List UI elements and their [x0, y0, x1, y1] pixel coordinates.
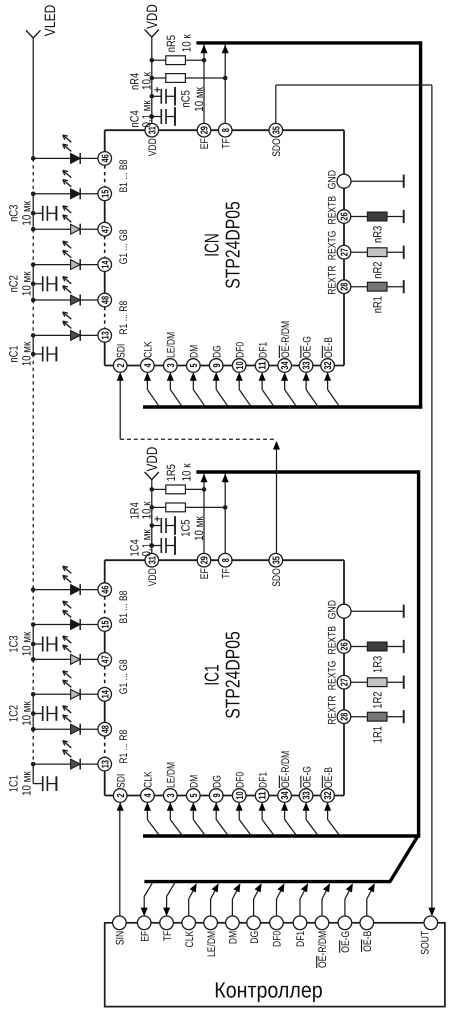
arrow into pin 32 of IC1 — [324, 802, 331, 811]
svg-text:DM: DM — [228, 931, 240, 944]
ground symbol at 1R3 — [403, 640, 405, 653]
LED emission arrows R8 IC1 — [63, 706, 72, 722]
wire controller SIN to IC1 SDI — [119, 810, 121, 916]
svg-text:34: 34 — [280, 361, 291, 370]
wire bus to controller TF — [167, 883, 175, 909]
svg-text:13: 13 — [100, 331, 111, 340]
junction nR5-EF — [202, 58, 207, 63]
pin GND of IC1 — [327, 600, 352, 619]
wire rail to LED R1 ICN — [33, 334, 70, 336]
arrow into pin 34 of ICN — [281, 372, 288, 381]
svg-text:47: 47 — [100, 225, 111, 234]
pin 28 REXTR of ICN — [327, 266, 351, 295]
controller pin EF — [137, 916, 151, 942]
bus vertical right of ICN (thick) — [419, 41, 422, 407]
wire LED to pin B8 ICN — [80, 157, 98, 159]
junction on VDD wire — [150, 76, 155, 81]
arrow controller OVG into bus — [346, 883, 353, 892]
pin 47 LED output of IC1 — [98, 653, 112, 667]
svg-text:14: 14 — [100, 690, 111, 699]
pin 10 DF0 of ICN — [232, 342, 246, 373]
ground symbol at GND of IC1 — [351, 605, 404, 618]
pin GND of ICN — [327, 170, 352, 189]
arrow into pin 11 of ICN — [259, 372, 266, 381]
junction on VDD wire — [150, 505, 155, 510]
resistor 1R3 — [351, 642, 404, 673]
capacitor iC3 10uF — [7, 200, 57, 225]
wire pin 5 of IC1 to bus — [193, 809, 204, 834]
LED B1 IC1 — [71, 619, 81, 630]
svg-text:34: 34 — [280, 791, 291, 800]
svg-text:4: 4 — [143, 363, 154, 367]
wire pin 11 of ICN to bus — [262, 379, 273, 405]
ground symbol at nR2 — [403, 246, 405, 259]
arrow controller LE/DM into bus — [212, 883, 219, 892]
controller pin LE/DM — [204, 916, 218, 957]
svg-text:15: 15 — [100, 189, 111, 198]
LED B1 ICN — [71, 188, 81, 199]
svg-text:nC5: nC5 — [178, 90, 192, 107]
svg-text:15: 15 — [100, 620, 111, 629]
svg-text:DG: DG — [211, 775, 223, 788]
pin 9 DG of IC1 — [209, 775, 223, 802]
wire controller CLK to bus — [189, 886, 196, 917]
svg-text:CLK: CLK — [143, 771, 155, 788]
svg-text:10 к: 10 к — [140, 501, 154, 520]
wire pin 9 of ICN to bus — [216, 379, 227, 405]
arrow into pin 11 of IC1 — [259, 802, 266, 811]
pin 4 CLK of IC1 — [141, 771, 155, 803]
wire controller DM to bus — [232, 886, 239, 917]
resistor nR5 10k pull-up EF — [152, 34, 204, 65]
svg-text:OE-R/DM: OE-R/DM — [317, 931, 329, 968]
junction VLED rail row R1 IC1 — [31, 762, 36, 767]
svg-text:OE-G: OE-G — [301, 766, 313, 788]
arrow into pin 3 of IC1 — [167, 802, 174, 811]
svg-text:EF: EF — [199, 568, 211, 579]
svg-text:REXTG: REXTG — [327, 661, 339, 691]
wire LED to pin R8 IC1 — [80, 728, 98, 730]
svg-text:1R5: 1R5 — [164, 464, 178, 481]
controller pin OE-B — [360, 916, 374, 952]
controller box — [105, 923, 445, 1007]
controller pin OE-R/DM — [315, 916, 329, 968]
pin 46 LED output of IC1 — [98, 583, 112, 597]
svg-text:10 к: 10 к — [180, 34, 194, 53]
junction VLED rail row R8 IC1 — [31, 727, 36, 732]
arrow into pin 33 of ICN — [303, 372, 310, 381]
svg-text:9: 9 — [212, 363, 223, 367]
svg-text:CLK: CLK — [143, 341, 155, 358]
LED emission arrows B8 IC1 — [63, 566, 72, 582]
pin 28 REXTR of IC1 — [327, 696, 351, 725]
pin 5 DM of ICN — [187, 345, 201, 373]
junction VLED rail cap IC1C3 — [31, 642, 36, 647]
svg-text:REXTG: REXTG — [327, 231, 339, 261]
junction VLED rail row B8 ICN — [31, 156, 36, 161]
svg-text:DG: DG — [211, 345, 223, 358]
svg-text:1R2: 1R2 — [371, 691, 385, 708]
svg-text:EF: EF — [139, 931, 151, 942]
ground symbol at GND of ICN — [351, 175, 404, 188]
ground symbol at 1R1 — [403, 710, 405, 723]
svg-text:0,1 мк: 0,1 мк — [140, 100, 154, 128]
capacitor 1C3 10uF — [7, 631, 57, 656]
controller pin DG — [247, 916, 261, 944]
wire cascade dashed (omitted ICs) — [120, 438, 276, 440]
svg-text:48: 48 — [100, 296, 111, 305]
wire rail to LED B8 ICN — [33, 157, 70, 159]
svg-text:10 мк: 10 мк — [19, 200, 33, 225]
svg-text:OE-G: OE-G — [301, 336, 313, 358]
capacitor iC2 10uF — [7, 271, 57, 296]
ground symbol at nR1 — [403, 280, 405, 293]
pin 26 REXTB of ICN — [327, 196, 351, 225]
svg-text:Контроллер: Контроллер — [214, 978, 322, 1003]
arrow into pin 5 of ICN — [190, 372, 197, 381]
pin 33 OE-G of ICN — [299, 336, 313, 372]
wire pin 33 of ICN to bus — [306, 379, 317, 405]
svg-text:DF1: DF1 — [295, 931, 307, 947]
wire LED to pin G1 ICN — [80, 264, 98, 266]
svg-text:nR1: nR1 — [371, 296, 385, 313]
wire controller OVG to bus — [345, 886, 352, 917]
wire pin 5 of ICN to bus — [193, 379, 204, 405]
pin 35 SDO of ICN — [269, 123, 283, 156]
wire rail to LED G8 ICN — [33, 228, 70, 230]
junction on VDD wire — [150, 114, 155, 119]
arrow into pin 10 of IC1 — [236, 802, 243, 811]
pin 3 LE/DM of IC1 — [164, 762, 178, 803]
junction VLED rail row R8 ICN — [31, 298, 36, 303]
svg-text:5: 5 — [189, 793, 200, 797]
wire pin 4 of ICN to bus — [147, 379, 158, 405]
svg-text:VDD: VDD — [144, 4, 161, 29]
pin 27 REXTG of IC1 — [327, 661, 351, 691]
pin 13 LED output of ICN — [98, 329, 112, 343]
arrow into pin 9 of ICN — [213, 372, 220, 381]
pin 48 LED output of IC1 — [98, 722, 112, 736]
svg-text:10: 10 — [235, 361, 246, 370]
svg-text:SIN: SIN — [115, 931, 127, 945]
svg-text:1R3: 1R3 — [371, 656, 385, 673]
bus EF/TF of IC1 (thick) — [196, 470, 418, 473]
junction on VDD wire — [150, 487, 155, 492]
LED emission arrows R8 ICN — [63, 277, 72, 293]
junction 1R4-TF — [223, 505, 228, 510]
svg-text:DF0: DF0 — [234, 772, 246, 788]
junction VLED rail cap ICNC1 — [31, 352, 36, 357]
svg-text:28: 28 — [340, 282, 351, 291]
wire ICN SDO to SOUT (right side) — [276, 85, 432, 908]
LED emission arrows G1 ICN — [63, 241, 72, 257]
power terminal VLED — [26, 4, 59, 37]
LED R8 IC1 — [71, 724, 81, 735]
svg-text:10 мк: 10 мк — [19, 771, 33, 796]
svg-text:EF: EF — [199, 138, 211, 149]
bus diagonal to controller (thick) — [390, 835, 419, 882]
junction 1R5-EF — [202, 487, 207, 492]
pin 26 REXTB of IC1 — [327, 626, 351, 655]
controller pin SOUT — [419, 916, 437, 955]
wire controller OVL to bus — [322, 886, 329, 917]
svg-text:46: 46 — [100, 154, 111, 163]
svg-text:26: 26 — [340, 212, 351, 221]
pin 11 DF1 of IC1 — [255, 772, 269, 803]
wire cascade up to ICN SDI — [119, 380, 121, 439]
pin 13 LED output of IC1 — [98, 757, 112, 771]
svg-text:29: 29 — [200, 126, 211, 135]
svg-text:2: 2 — [116, 363, 127, 367]
pin 33 OE-G of IC1 — [299, 766, 313, 802]
svg-text:R1 ... R8: R1 ... R8 — [118, 301, 130, 335]
svg-text:0,1 мк: 0,1 мк — [140, 529, 154, 557]
resistor nR2 — [351, 248, 404, 279]
wire pin 10 of ICN to bus — [239, 379, 250, 405]
svg-text:46: 46 — [100, 585, 111, 594]
LED emission arrows G1 IC1 — [63, 671, 72, 687]
wire pin 32 of IC1 to bus — [328, 809, 339, 834]
pin 9 DG of ICN — [209, 345, 223, 372]
pin 29 EF of ICN — [197, 123, 211, 149]
controller pin DF0 — [270, 916, 284, 947]
svg-text:DF1: DF1 — [257, 342, 269, 358]
junction on VDD wire — [150, 523, 155, 528]
svg-text:35: 35 — [271, 126, 282, 135]
resistor nR4 10k pull-up TF — [128, 71, 226, 90]
svg-text:nR2: nR2 — [371, 261, 385, 278]
capacitor nC5 10uF — [152, 86, 206, 111]
wire LED to pin B1 ICN — [80, 193, 98, 195]
svg-text:VDD: VDD — [147, 568, 159, 586]
arrow controller DF0 into bus — [277, 883, 284, 892]
wire EF pin to bus of IC1 — [203, 474, 205, 554]
LED emission arrows G8 IC1 — [63, 636, 72, 652]
pin 29 EF of IC1 — [197, 553, 211, 579]
capacitor nC4 0.1uF — [128, 100, 175, 128]
arrow into controller EF — [141, 908, 148, 917]
svg-text:4: 4 — [143, 793, 154, 797]
junction VLED rail cap IC1C2 — [31, 711, 36, 716]
wire pin 34 of ICN to bus — [285, 379, 296, 405]
svg-text:13: 13 — [100, 760, 111, 769]
controller pin TF — [160, 916, 174, 941]
junction VLED rail row B1 ICN — [31, 192, 36, 197]
arrow into pin 9 of IC1 — [213, 802, 220, 811]
wire rail to LED G1 IC1 — [33, 693, 70, 695]
svg-text:2: 2 — [116, 793, 127, 797]
svg-text:27: 27 — [340, 678, 351, 687]
arrow into pin 34 of IC1 — [281, 802, 288, 811]
wire pin 4 of IC1 to bus — [147, 809, 158, 834]
svg-text:26: 26 — [340, 642, 351, 651]
svg-text:B1 ... B8: B1 ... B8 — [118, 160, 130, 193]
power terminal VDD of ICN — [144, 4, 161, 37]
wire rail to LED R8 ICN — [33, 299, 70, 301]
svg-text:3: 3 — [166, 363, 177, 367]
wire bus to controller EF — [144, 883, 152, 909]
pin 14 LED output of IC1 — [98, 688, 112, 702]
resistor 1R1 — [351, 712, 404, 743]
svg-text:3: 3 — [166, 793, 177, 797]
junction VLED rail row G1 IC1 — [31, 692, 36, 697]
controller pin CLK — [182, 916, 196, 948]
wire pin 3 of ICN to bus — [170, 379, 181, 405]
arrow TF into bus of ICN — [222, 45, 229, 54]
svg-text:11: 11 — [258, 361, 269, 370]
LED G1 ICN — [71, 259, 81, 270]
LED G8 IC1 — [71, 654, 81, 665]
svg-text:VDD: VDD — [147, 138, 159, 156]
bus signals into ICN (thick) — [143, 405, 422, 408]
svg-text:10 мк: 10 мк — [19, 341, 33, 366]
svg-text:47: 47 — [100, 655, 111, 664]
bus from controller (thick) — [144, 880, 391, 883]
svg-text:33: 33 — [302, 791, 313, 800]
pin 32 OE-B of ICN — [321, 337, 335, 372]
svg-text:GND: GND — [327, 170, 339, 189]
pin 10 DF0 of IC1 — [232, 772, 246, 803]
junction VLED rail row B1 IC1 — [31, 622, 36, 627]
junction VLED rail row G1 ICN — [31, 262, 36, 267]
arrow into controller SOUT — [428, 908, 435, 917]
arrow IC1 SDO into cascade line — [273, 441, 280, 450]
pin 48 LED output of ICN — [98, 293, 112, 307]
wire VDD terminal to pin 31 of ICN — [151, 37, 153, 124]
svg-text:STP24DP05: STP24DP05 — [222, 631, 244, 718]
svg-text:G1 ... G8: G1 ... G8 — [118, 659, 130, 694]
LED R1 IC1 — [71, 759, 81, 770]
pin 32 OE-B of IC1 — [321, 767, 335, 802]
pin 31 VDD of IC1 — [145, 553, 159, 586]
arrow into pin 3 of ICN — [167, 372, 174, 381]
svg-text:1C5: 1C5 — [178, 519, 192, 536]
svg-text:29: 29 — [200, 556, 211, 565]
capacitor 1C4 0.1uF — [128, 529, 175, 557]
power terminal VDD of IC1 — [144, 447, 161, 480]
LED G1 IC1 — [71, 689, 81, 700]
wire controller DF0 to bus — [277, 886, 284, 917]
svg-text:DG: DG — [249, 931, 261, 944]
svg-text:G1 ... G8: G1 ... G8 — [118, 229, 130, 264]
pin 8 TF of IC1 — [218, 553, 232, 578]
arrow controller OVL into bus — [323, 883, 330, 892]
bus vertical right of IC1 (thick) — [417, 470, 420, 836]
LED emission arrows G8 ICN — [63, 206, 72, 222]
wire rail to LED G1 ICN — [33, 264, 70, 266]
svg-text:35: 35 — [271, 556, 282, 565]
LED R8 ICN — [71, 295, 81, 306]
pin 47 LED output of ICN — [98, 222, 112, 236]
capacitor iC1 10uF — [7, 341, 57, 366]
LED emission arrows R1 ICN — [63, 312, 72, 328]
svg-text:OE-G: OE-G — [340, 931, 352, 953]
junction VLED rail row G8 ICN — [31, 227, 36, 232]
wire LED to pin G1 IC1 — [80, 693, 98, 695]
svg-text:10 к: 10 к — [140, 71, 154, 90]
svg-text:B1 ... B8: B1 ... B8 — [118, 591, 130, 624]
wire rail to LED R8 IC1 — [33, 728, 70, 730]
svg-text:VDD: VDD — [144, 447, 161, 472]
svg-text:8: 8 — [221, 558, 232, 562]
svg-text:DF0: DF0 — [234, 342, 246, 358]
svg-text:STP24DP05: STP24DP05 — [222, 201, 244, 288]
wire controller DG to bus — [254, 886, 261, 917]
svg-text:REXTB: REXTB — [327, 196, 339, 225]
svg-text:nR5: nR5 — [164, 35, 178, 52]
svg-text:SDO: SDO — [271, 138, 283, 157]
pin 4 CLK of ICN — [141, 341, 155, 373]
arrow controller DG into bus — [255, 883, 262, 892]
svg-text:OE-R/DM: OE-R/DM — [280, 321, 292, 358]
wire LED to pin B1 IC1 — [80, 624, 98, 626]
wire controller DF1 to bus — [300, 886, 307, 917]
LED G8 ICN — [71, 224, 81, 235]
arrow into pin 10 of ICN — [236, 372, 243, 381]
junction VLED rail cap ICNC2 — [31, 282, 36, 287]
svg-text:32: 32 — [323, 791, 334, 800]
pin 15 LED output of ICN — [98, 187, 112, 201]
svg-text:IC1: IC1 — [202, 664, 224, 685]
arrow EF into bus of IC1 — [201, 474, 208, 483]
LED B8 ICN — [71, 153, 81, 164]
ground symbol at nR3 — [403, 210, 405, 223]
arrow into pin 32 of ICN — [324, 372, 331, 381]
pin 15 LED output of IC1 — [98, 618, 112, 632]
svg-text:SOUT: SOUT — [419, 931, 431, 955]
pin 35 SDO of IC1 — [269, 553, 283, 586]
svg-text:10 мк: 10 мк — [19, 631, 33, 656]
pin 14 LED output of ICN — [98, 258, 112, 272]
wire pin 34 of IC1 to bus — [285, 809, 296, 834]
controller pin SIN — [113, 916, 127, 945]
wire LED to pin G8 ICN — [80, 228, 98, 230]
controller pin DF1 — [293, 916, 307, 947]
resistor nR1 — [351, 282, 404, 313]
svg-text:TF: TF — [220, 138, 232, 149]
junction nR4-TF — [223, 76, 228, 81]
svg-text:OE-R/DM: OE-R/DM — [280, 751, 292, 788]
svg-text:33: 33 — [302, 361, 313, 370]
junction on VDD wire — [150, 94, 155, 99]
svg-text:REXTR: REXTR — [327, 266, 339, 295]
wire pin 11 of IC1 to bus — [262, 809, 273, 834]
controller pin OE-G — [338, 916, 352, 953]
svg-text:VLED: VLED — [42, 4, 59, 36]
arrow EF into bus of ICN — [201, 45, 208, 54]
wire TF pin to bus of IC1 — [224, 474, 226, 554]
wire TF pin to bus of ICN — [224, 45, 226, 124]
capacitor 1C5 10uF — [152, 516, 206, 541]
svg-text:CLK: CLK — [184, 930, 196, 947]
svg-text:TF: TF — [162, 931, 174, 942]
wire rail to LED B8 IC1 — [33, 589, 70, 591]
svg-text:OE-B: OE-B — [323, 337, 335, 358]
pin 2 SDI of IC1 — [113, 774, 127, 803]
resistor 1R4 10k pull-up TF — [128, 501, 226, 520]
pin 11 DF1 of ICN — [255, 342, 269, 373]
pin 5 DM of IC1 — [187, 775, 201, 803]
svg-text:LE/DM: LE/DM — [166, 332, 178, 358]
wire pin 32 of ICN to bus — [328, 379, 339, 405]
junction VLED rail row G8 IC1 — [31, 657, 36, 662]
capacitor 1C1 10uF — [7, 771, 57, 796]
svg-text:nR3: nR3 — [371, 226, 385, 243]
wire controller LE/DM to bus — [211, 886, 218, 917]
wire VLED rail (solid/dashed segments) — [32, 38, 34, 784]
svg-text:10 к: 10 к — [180, 463, 194, 482]
arrow controller DM into bus — [233, 883, 240, 892]
